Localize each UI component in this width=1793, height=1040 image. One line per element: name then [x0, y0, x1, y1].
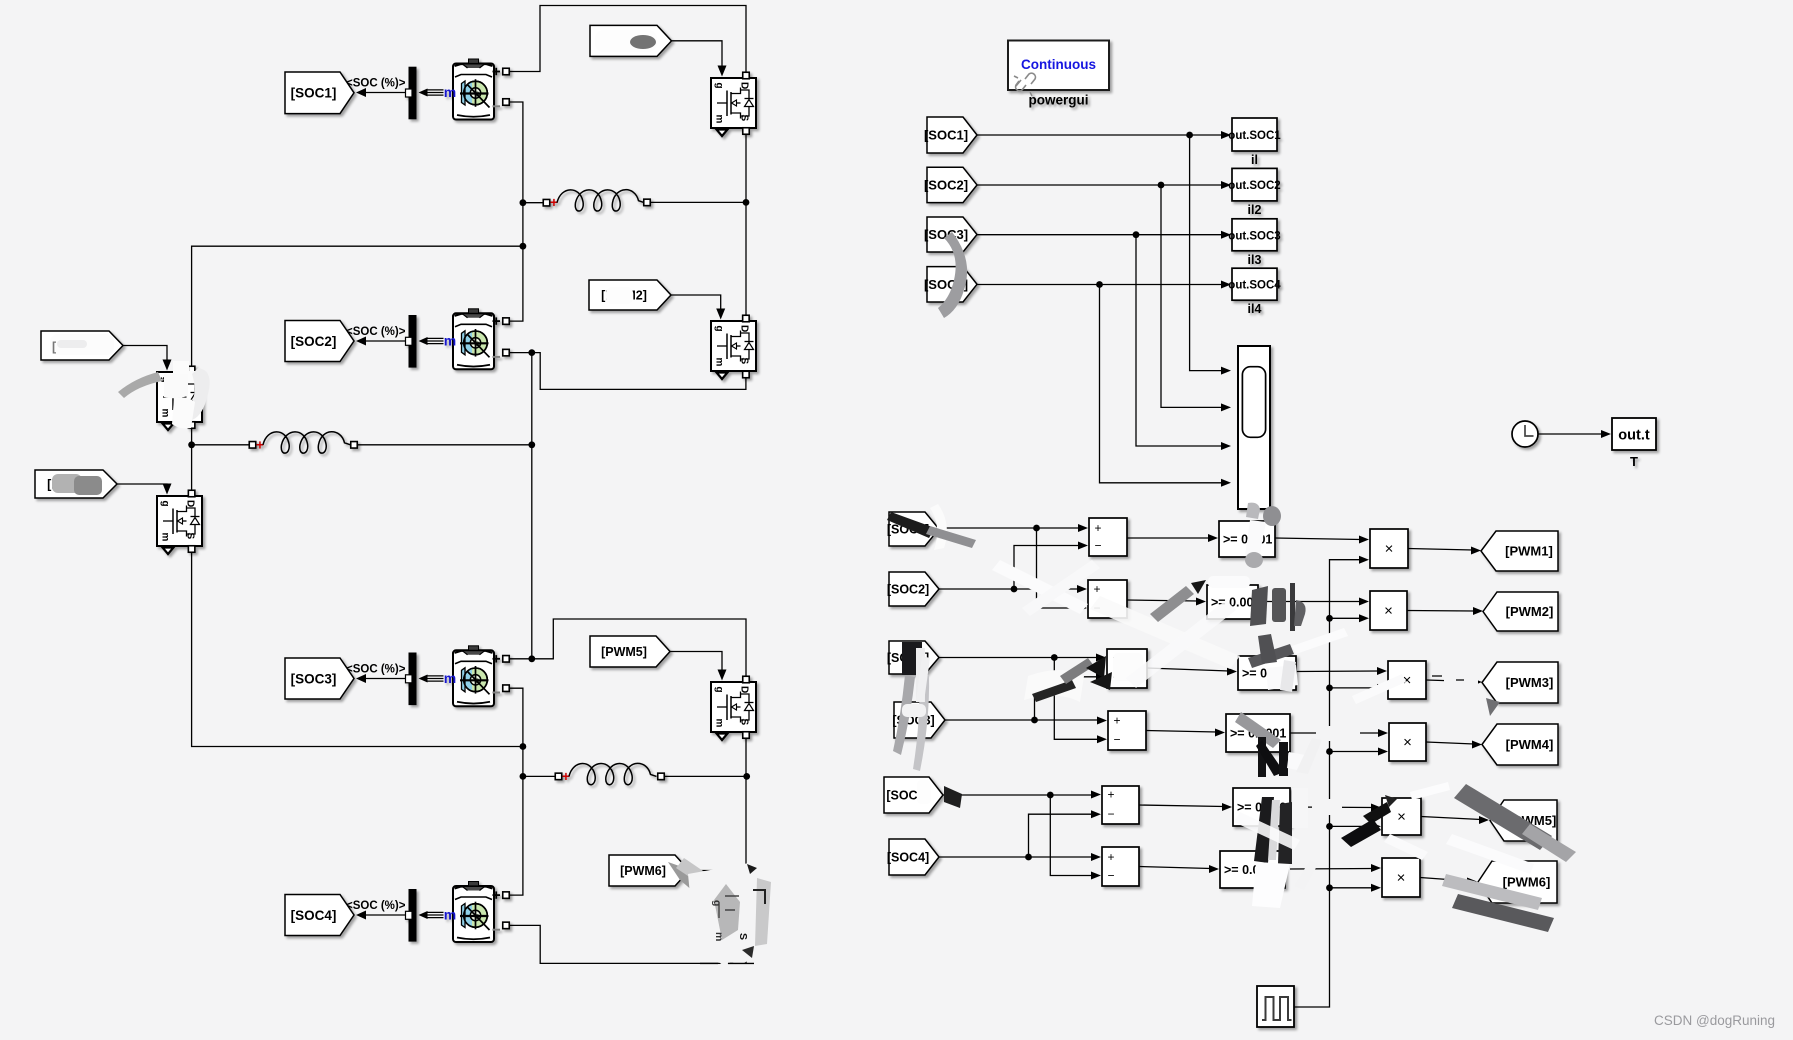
wire battery1 - down left dc bus [509, 102, 523, 321]
wire relational6 to product6 [1290, 868, 1373, 871]
wire clock to out.t [1538, 433, 1603, 435]
wire SOC2 branch to sum1 - [1014, 546, 1080, 590]
junction battery3+ / mid bus [528, 655, 535, 662]
wire inductor L2 output to mid bus [357, 444, 532, 446]
wire product6 to goto PWM6 [1420, 878, 1469, 882]
clock block [1512, 421, 1538, 447]
from tag SOC4 (control row6) [887, 839, 939, 875]
product block 5 [1382, 798, 1421, 835]
wire sum2 to relational2 [1127, 600, 1198, 601]
relational operator 1 (>= 0.001) [1219, 521, 1275, 557]
junction lower bus / L3 [520, 773, 527, 780]
svg-text:T: T [1630, 454, 1638, 469]
junction pulse bus y=887.8 [1326, 884, 1333, 891]
wire node to MOSFET Q3 drain rail [192, 246, 523, 367]
MOSFET Q6 [711, 891, 756, 949]
MOSFET Q3 [157, 372, 202, 430]
wire sum3 to relational3 [1147, 668, 1229, 671]
svg-text:m: m [444, 84, 456, 100]
wire relational5 to product5 [1290, 806, 1373, 809]
goto tag SOC3 (battery3 SOC) [285, 658, 354, 699]
svg-text:il3: il3 [1248, 253, 1262, 267]
wire product4 to goto PWM4 [1426, 742, 1474, 744]
from tag SOC3 (control row4) [892, 702, 945, 738]
wire from tag PWM6 to Q6 gate [689, 871, 722, 886]
wire pulse branch y=618.3 [1330, 617, 1362, 619]
sum block 3 [1107, 649, 1147, 688]
wire from SOC2 to sum2 + [939, 588, 1079, 590]
svg-text:+: + [562, 769, 570, 784]
inductor L3 [555, 773, 562, 780]
battery3 + port [493, 658, 501, 660]
svg-text:g: g [714, 83, 725, 89]
from tag SOC1 (control row1) [887, 512, 939, 546]
svg-text:×: × [1384, 603, 1393, 620]
battery1 + port [493, 71, 501, 73]
svg-text:[PWM5]: [PWM5] [601, 645, 647, 659]
svg-text:[SOC1]: [SOC1] [924, 128, 968, 143]
svg-text:[PWM6]: [PWM6] [1503, 875, 1551, 890]
product block 4 [1389, 723, 1426, 761]
svg-text:[SOC2]: [SOC2] [924, 178, 968, 193]
wire pulse generator to products second inputs [1294, 560, 1361, 1007]
svg-text:out.t: out.t [1618, 428, 1650, 444]
wire node to inductor L3 input [523, 775, 556, 777]
wire from tag PWM1 to Q1 gate [672, 41, 723, 72]
MOSFET Q2 [711, 321, 756, 379]
wire relational4 to product4 [1290, 732, 1380, 734]
junction pulse bus y=751.5 [1326, 748, 1333, 755]
svg-text:+: + [1113, 714, 1120, 728]
wire from SOC1 to sum1 + [939, 527, 1080, 529]
battery4 + port [493, 894, 501, 896]
from tag SOC4 (monitor) [924, 267, 977, 302]
wire MOSFET Q1 source to MOSFET Q2 drain [745, 130, 747, 316]
wire lower bus battery3- to battery4+ [509, 688, 523, 895]
goto tag PWM6 [1478, 861, 1557, 903]
wire inductor L3 output to right rail [664, 775, 747, 777]
battery3 - port [493, 692, 501, 694]
svg-text:g: g [714, 326, 725, 332]
from tag PWM6 [609, 855, 689, 886]
from tag SOC2 (control row2) [887, 572, 939, 606]
sum block 5 [1102, 786, 1139, 824]
wire battery2 - to MOSFET Q2 source [509, 353, 746, 390]
inductor L2 [249, 442, 256, 449]
wire SOC4 branch to sum5 - [1029, 814, 1094, 857]
from tag PWM3 (smudged) [41, 331, 123, 360]
from tag PWM5 [590, 636, 670, 667]
svg-text:+: + [550, 195, 558, 210]
bus selector 1 [406, 67, 417, 120]
wire relational2 to product2 [1258, 601, 1361, 603]
relational operator 4 (>= 0.0001) [1226, 714, 1290, 752]
svg-text:+: + [1107, 850, 1114, 864]
wire pulse branch y=826.4 [1330, 825, 1374, 827]
from tag SOC3 (monitor) [924, 217, 977, 252]
wire from SOC1 to out.SOC1 [977, 134, 1223, 136]
wire relational1 to product1 [1275, 538, 1361, 540]
wire battery4 m to bus selector [427, 911, 444, 913]
wire from tag PWM2 to Q2 gate [671, 295, 721, 315]
svg-text:×: × [1403, 734, 1412, 751]
battery2 + port [493, 320, 501, 322]
wire SOC2b branch to sum4 - [1054, 658, 1099, 740]
bus selector 4 [406, 889, 417, 942]
svg-text:<SOC (%)>: <SOC (%)> [346, 900, 406, 912]
battery B4 [453, 882, 494, 943]
junction pulse bus y=618.3 [1326, 615, 1333, 622]
wire from SOC3 to sum4 + [945, 719, 1099, 721]
svg-text:[PWM6]: [PWM6] [620, 864, 666, 878]
svg-text:<SOC (%)>: <SOC (%)> [346, 78, 406, 90]
wire relational3 to product3 [1296, 670, 1379, 673]
svg-text:[SOC1]: [SOC1] [291, 86, 337, 101]
svg-text:[SOC2]: [SOC2] [887, 583, 929, 597]
wire pulse branch y=687.9 [1330, 687, 1380, 689]
svg-text:×: × [1385, 541, 1394, 558]
svg-text:g: g [714, 687, 725, 693]
junction Q3/Q4 rail / L2 [188, 441, 195, 448]
svg-text:−: − [1107, 869, 1114, 883]
product block 2 [1370, 591, 1407, 630]
svg-text:il2: il2 [1248, 203, 1262, 217]
to-workspace out.SOC3 [1228, 219, 1280, 267]
wire battery2 m to bus selector [427, 337, 444, 339]
wire from SOC2 to out.SOC2 [977, 184, 1223, 186]
svg-text:m: m [444, 907, 456, 923]
wire pulse branch y=887.8 [1330, 887, 1374, 889]
wire sum5 to relational5 [1139, 805, 1224, 807]
product block 1 [1370, 529, 1408, 568]
junction SOC3 branch [1133, 231, 1140, 238]
svg-text:[SOC4]: [SOC4] [291, 908, 337, 923]
goto tag SOC4 (battery4 SOC) [285, 895, 354, 936]
svg-text:+: + [256, 437, 264, 452]
relational operator 6 (>= 0.0001) [1220, 851, 1285, 888]
wire product2 to goto PWM2 [1407, 610, 1475, 613]
inductor L1 [543, 199, 550, 206]
wire bus selector to goto SOC3 [366, 678, 405, 680]
svg-text:m: m [714, 719, 725, 728]
junction SOC3b control branch [1047, 792, 1054, 799]
relational operator 5 (>= 0.0001) [1233, 788, 1293, 826]
junction right rail / L1 [743, 199, 750, 206]
svg-text:+: + [1107, 788, 1114, 802]
wire bus selector to goto SOC2 [366, 340, 405, 342]
wire battery3 m to bus selector [427, 675, 444, 677]
wire from tag PWM5 to Q5 gate [670, 652, 722, 677]
sum block 6 [1102, 847, 1139, 886]
wire pulse branch y=751.5 [1330, 751, 1381, 753]
wire from tag PWM3 to Q3 gate [123, 346, 167, 367]
svg-text:m: m [714, 358, 725, 367]
from tag PWM1 (smudged) [590, 25, 672, 56]
relational operator 2 (>= 0.001) [1207, 585, 1260, 619]
wire battery1 m to bus selector [427, 89, 444, 91]
junction SOC2b control branch [1051, 654, 1058, 661]
wire MOSFET Q6 source to battery4 - [509, 925, 746, 963]
svg-text:[PWM3]: [PWM3] [1506, 675, 1554, 690]
wire product3 to goto PWM3 (smudged) [1426, 680, 1474, 682]
junction lower bus / Q4 rail [520, 743, 527, 750]
battery1 - port [493, 105, 501, 107]
product block 6 [1382, 858, 1420, 897]
svg-text:S: S [737, 933, 749, 940]
goto tag PWM1 [1481, 531, 1558, 571]
svg-text:[SOC2]: [SOC2] [291, 334, 337, 349]
wire SOC3 branch to sum3 - [1035, 677, 1099, 720]
to-workspace out.SOC4 [1228, 268, 1281, 316]
svg-text:m: m [444, 333, 456, 349]
MOSFET Q1 [711, 78, 756, 136]
goto tag PWM3 [1482, 662, 1558, 703]
scope block [1238, 346, 1270, 509]
svg-text:il: il [1251, 153, 1258, 167]
from tag SOC1 (monitor) [924, 117, 977, 153]
wire sum4 to relational4 [1146, 731, 1217, 733]
svg-text:−: − [1113, 732, 1120, 746]
svg-text:m: m [160, 533, 171, 542]
wire sum6 to relational6 [1139, 867, 1211, 869]
svg-text:+: + [1093, 582, 1100, 596]
wire bus selector to goto SOC4 [366, 914, 405, 916]
from tag PWM2 [589, 280, 671, 310]
svg-text:m: m [714, 115, 725, 124]
junction right rail / L3 [743, 773, 750, 780]
wire product5 to goto PWM5 [1421, 817, 1481, 820]
junction SOC2 control branch [1011, 586, 1018, 593]
junction left bus / Q3 rail [520, 243, 527, 250]
wire node to inductor L2 input [192, 444, 250, 446]
MOSFET Q5 [711, 682, 756, 740]
wire SOC1 branch to sum2 - [1037, 528, 1080, 608]
wire SOC3b branch to sum6 - [1050, 795, 1093, 876]
junction pulse bus y=826.4 [1326, 823, 1333, 830]
battery2 - port [493, 356, 501, 358]
wire inductor L1 output to right rail [650, 201, 746, 203]
svg-text:×: × [1397, 809, 1406, 826]
wire battery3 + to MOSFET Q5 drain [509, 619, 746, 677]
svg-text:m: m [160, 409, 171, 418]
svg-text:il4: il4 [1248, 302, 1262, 316]
wire from SOC3b to sum5 + [943, 794, 1093, 796]
svg-text:[PWM4]: [PWM4] [1506, 737, 1554, 752]
goto tag SOC1 (battery1 SOC) [285, 72, 354, 114]
svg-text:−: − [1094, 539, 1101, 553]
powergui block [1008, 41, 1109, 97]
wire branch to scope input 1 [1190, 135, 1223, 371]
battery B2 [453, 309, 494, 370]
svg-text:m: m [444, 670, 456, 686]
svg-text:[PWM1]: [PWM1] [1505, 544, 1553, 559]
svg-text:out.SOC3: out.SOC3 [1228, 230, 1280, 242]
svg-text:Continuous: Continuous [1021, 57, 1096, 72]
junction battery2- / mid bus [528, 349, 535, 356]
battery4 - port [493, 929, 501, 931]
junction SOC1 branch [1186, 132, 1193, 139]
svg-text:[SOC3]: [SOC3] [291, 671, 337, 686]
goto tag PWM4 [1482, 724, 1558, 765]
wire bus selector to goto SOC1 [366, 92, 405, 94]
wire from tag PWM4 to Q4 gate [117, 484, 167, 490]
svg-text:out.SOC4: out.SOC4 [1228, 280, 1281, 292]
wire from SOC4 to out.SOC4 [977, 284, 1223, 286]
junction SOC2 branch [1158, 182, 1165, 189]
junction SOC4 control branch [1025, 854, 1032, 861]
junction SOC4 branch [1096, 281, 1103, 288]
goto tag PWM2 [1483, 592, 1558, 631]
wire MOSFET Q5 source to MOSFET Q6 drain [745, 737, 747, 886]
bus selector 3 [406, 653, 417, 706]
out.t block [1612, 418, 1656, 450]
junction SOC1 control branch [1033, 525, 1040, 532]
junction mid bus / L2 [528, 441, 535, 448]
from tag SOC2 (control row3) [887, 641, 939, 674]
wire battery1 + to MOSFET Q1 drain [509, 6, 746, 74]
svg-text:[PWM2]: [PWM2] [1506, 604, 1554, 619]
svg-text:[SOC4]: [SOC4] [887, 851, 929, 865]
svg-text:out.SOC2: out.SOC2 [1228, 180, 1280, 192]
svg-text:g: g [711, 900, 723, 906]
wire branch to scope input 3 [1136, 235, 1223, 446]
MOSFET Q4 [157, 496, 202, 554]
svg-text:g: g [160, 501, 171, 507]
wire mid vertical bus battery2- to battery3+ [531, 353, 533, 659]
wire MOSFET Q3 source to MOSFET Q4 drain [191, 428, 193, 491]
wire branch to scope input 2 [1161, 185, 1223, 407]
svg-text:×: × [1397, 870, 1406, 887]
from tag SOC3 (control row5) [884, 777, 943, 813]
sum block 1 [1089, 518, 1127, 556]
junction SOC3 control branch [1031, 717, 1038, 724]
wire from SOC2b to sum3 + [939, 657, 1098, 659]
from tag PWM4 (smudged) [35, 470, 117, 498]
svg-text:<SOC (%)>: <SOC (%)> [346, 664, 406, 676]
svg-text:CSDN @dogRuning: CSDN @dogRuning [1654, 1013, 1775, 1028]
goto tag SOC2 (battery2 SOC) [285, 321, 354, 362]
battery B1 [453, 59, 494, 120]
junction left bus / L1 [520, 199, 527, 206]
wire from SOC3 to out.SOC3 [977, 234, 1223, 236]
to-workspace out.SOC2 [1228, 168, 1280, 217]
wire sum1 to relational1 [1127, 537, 1210, 539]
pulse generator [1257, 986, 1294, 1027]
wire from SOC4 to sum6 + [939, 856, 1093, 858]
goto tag PWM5 [1490, 800, 1557, 841]
svg-text:−: − [1107, 807, 1114, 821]
from tag SOC2 (monitor) [924, 167, 977, 202]
svg-text:m: m [713, 932, 725, 941]
svg-text:+: + [1094, 521, 1101, 535]
wire branch to scope input 4 [1100, 285, 1224, 483]
junction pulse bus y=687.9 [1326, 685, 1333, 692]
relational operator 3 (>= 0.001) [1238, 656, 1296, 690]
wire MOSFET Q4 source to lower-left rail [192, 553, 523, 747]
product block 3 [1388, 661, 1426, 699]
svg-text:powergui: powergui [1029, 93, 1089, 108]
wire product1 to goto PWM1 [1408, 549, 1473, 551]
sum block 4 [1108, 711, 1146, 750]
svg-text:<SOC (%)>: <SOC (%)> [346, 326, 406, 338]
battery B3 [453, 646, 494, 707]
bus selector 2 [406, 315, 417, 368]
sum block 2 [1088, 580, 1127, 618]
svg-text:out.SOC1: out.SOC1 [1228, 130, 1281, 142]
wire node to inductor L1 input [523, 202, 544, 204]
to-workspace out.SOC1 [1228, 118, 1281, 167]
